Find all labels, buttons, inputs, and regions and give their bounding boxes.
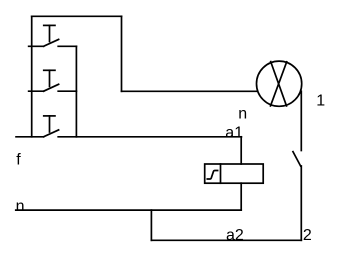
wire: top horizontal: [32, 15, 122, 17]
lamp X stroke 2: [271, 62, 287, 106]
switch S2 left terminal: [29, 90, 44, 92]
svg-text:n: n: [16, 198, 25, 215]
switch S2 actuator T-bar: [44, 69, 55, 71]
switch S3 blade: [44, 130, 59, 137]
wire: main rail left segment: [16, 136, 44, 138]
wire: lamp right terminal down: [300, 91, 302, 150]
wire: lamp feed horizontal: [122, 90, 257, 92]
relay coil divider: [220, 164, 222, 183]
wire: left bus vertical: [31, 16, 33, 137]
switch S1 actuator stem: [49, 25, 51, 41]
switch S1 right terminal: [58, 45, 76, 47]
switch S2 actuator stem: [49, 70, 51, 86]
wire: coil bottom terminal: [240, 183, 242, 210]
wire: main rail right segment: [58, 136, 241, 138]
switch S2 blade: [44, 84, 59, 91]
lamp 1 circle: [257, 61, 302, 106]
lamp X stroke 1: [271, 62, 287, 106]
contact blade (relay contact): [293, 152, 301, 166]
relay coil body: [205, 164, 264, 183]
wire: n rail horizontal: [16, 209, 241, 211]
svg-text:f: f: [16, 152, 21, 169]
svg-text:a1: a1: [225, 124, 243, 141]
switch S1 left terminal: [29, 45, 44, 47]
switch S2 right terminal: [58, 90, 76, 92]
svg-text:a2: a2: [226, 227, 244, 244]
switch S1 blade: [44, 39, 59, 46]
svg-text:n: n: [238, 105, 247, 122]
wire: right bus vertical: [75, 46, 77, 137]
svg-text:1: 1: [316, 93, 325, 110]
wire: contact bottom terminal down: [300, 166, 302, 240]
relay coil delay symbol: [207, 171, 217, 180]
switch S3 actuator T-bar: [44, 115, 55, 117]
wire: riser from n rail: [150, 210, 152, 240]
wire: coil top terminal: [240, 137, 242, 164]
wire: vertical drop: [121, 16, 123, 91]
switch S3 actuator stem: [49, 116, 51, 132]
switch S1 actuator T-bar: [44, 24, 55, 26]
svg-text:2: 2: [303, 227, 312, 244]
wire: bottom horizontal: [151, 239, 301, 241]
